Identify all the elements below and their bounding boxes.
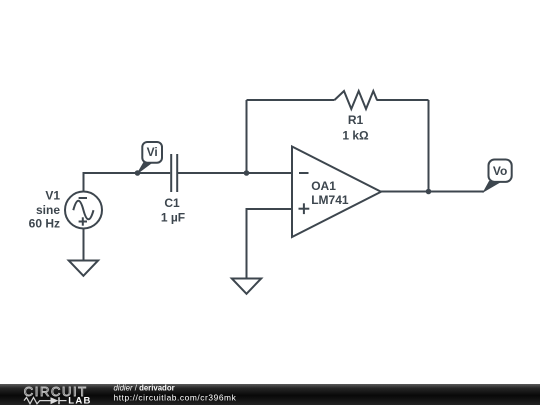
svg-text:sine: sine — [36, 203, 60, 217]
wire feedback left segment — [247, 99, 335, 101]
svg-text:1 kΩ: 1 kΩ — [342, 129, 369, 143]
op-amp minus input symbol — [299, 172, 309, 174]
svg-text:V1: V1 — [45, 189, 60, 203]
ground under V1 — [69, 261, 98, 276]
logo resistor squiggle — [24, 397, 51, 403]
node junction at capacitor output — [244, 170, 250, 176]
node label Vo pointer — [484, 182, 501, 192]
svg-text:OA1: OA1 — [311, 179, 336, 193]
wire non-inverting input to ground — [247, 209, 293, 279]
logo diode — [51, 397, 59, 404]
svg-text:60 Hz: 60 Hz — [29, 217, 60, 231]
wire feedback right segment — [377, 99, 429, 101]
op-amp plus input symbol — [299, 203, 310, 214]
svg-text:didier / derivador: didier / derivador — [114, 383, 175, 392]
V1 minus sign — [79, 197, 87, 199]
ground under non-inverting input — [232, 279, 261, 294]
svg-text:R1: R1 — [348, 113, 364, 127]
voltage source V1 — [65, 192, 102, 229]
svg-text:LAB: LAB — [68, 396, 91, 405]
svg-text:Vo: Vo — [493, 164, 507, 178]
wire feedback down to output — [428, 100, 430, 192]
svg-text:1 µF: 1 µF — [161, 210, 185, 224]
capacitor C1 — [171, 154, 177, 192]
V1 sine symbol — [73, 201, 93, 220]
node label Vi pointer — [138, 163, 153, 174]
wire output — [381, 191, 484, 193]
op-amp OA1 — [292, 147, 381, 238]
resistor R1 — [335, 91, 378, 109]
wire junction up to feedback — [246, 100, 248, 173]
V1 plus sign — [79, 217, 87, 225]
node dot Vi — [135, 170, 141, 176]
svg-text:Vi: Vi — [147, 145, 158, 159]
svg-text:LM741: LM741 — [311, 193, 349, 207]
wire capacitor to op-amp inverting input — [178, 172, 292, 174]
svg-text:C1: C1 — [164, 196, 180, 210]
node label Vi box — [142, 142, 162, 163]
svg-text:http://circuitlab.com/cr396mk: http://circuitlab.com/cr396mk — [114, 392, 237, 402]
wire V1 top to capacitor — [84, 173, 171, 192]
wire V1 bottom to ground — [83, 229, 85, 261]
node junction at output — [426, 189, 432, 195]
node label Vo box — [489, 160, 512, 182]
